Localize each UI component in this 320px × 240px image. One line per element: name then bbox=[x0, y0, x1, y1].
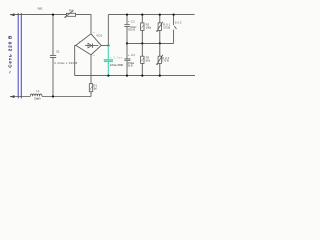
svg-text:100к: 100к bbox=[146, 26, 152, 30]
varistor RU1 bbox=[156, 15, 163, 44]
input terminal arrow bottom bbox=[10, 95, 15, 98]
capacitor C2 highlighted (teal) bbox=[104, 45, 113, 76]
node top bus junctions bbox=[126, 14, 175, 16]
svg-text:0,22мк х 630 В: 0,22мк х 630 В bbox=[54, 61, 77, 65]
wire bridge plus output bbox=[101, 45, 108, 47]
wire bottom mains bbox=[10, 96, 91, 98]
svg-text:= 0,9кв: = 0,9кв bbox=[110, 55, 123, 59]
wire AC2 drop from bridge bottom vertex bbox=[90, 55, 92, 84]
capacitor C3 electrolytic bbox=[124, 15, 129, 44]
inductor L1 bbox=[30, 94, 42, 96]
node top junction bbox=[52, 14, 54, 16]
svg-text:275 В: 275 В bbox=[162, 58, 169, 62]
svg-text:270 В: 270 В bbox=[163, 26, 170, 30]
svg-text:~: ~ bbox=[93, 54, 95, 58]
node bottom junction C1 bbox=[52, 95, 54, 97]
fuse/thermistor FU1 bbox=[64, 10, 75, 17]
svg-text:VD1: VD1 bbox=[96, 33, 102, 37]
svg-text:~: ~ bbox=[93, 30, 95, 34]
wire minus from bridge left vertex bbox=[75, 45, 76, 75]
bridge polarity marks bbox=[79, 30, 100, 58]
resistor R3 bbox=[141, 43, 144, 75]
svg-text:68к: 68к bbox=[146, 59, 151, 63]
svg-text:350 В: 350 В bbox=[128, 28, 135, 32]
capacitor C4 electrolytic bbox=[124, 43, 130, 75]
connector X1 (blue double lines) bbox=[18, 13, 21, 98]
svg-text:SA2: SA2 bbox=[175, 20, 182, 24]
wire top mains bbox=[10, 15, 91, 34]
svg-text:FU1: FU1 bbox=[69, 8, 74, 12]
switch SA2 bbox=[174, 15, 177, 44]
node plus bbox=[107, 44, 109, 46]
svg-text:220мк 450В: 220мк 450В bbox=[110, 63, 123, 67]
wire riser and top plus bus bbox=[108, 15, 194, 46]
svg-text:+ C2: + C2 bbox=[128, 19, 135, 23]
svg-text:L1: L1 bbox=[36, 89, 40, 93]
svg-text:С1: С1 bbox=[56, 50, 60, 54]
svg-text:35 В: 35 В bbox=[127, 64, 132, 68]
varistor RU2 bbox=[156, 43, 163, 75]
svg-text:10мкГн: 10мкГн bbox=[34, 97, 41, 100]
svg-text:+ C3: + C3 bbox=[128, 53, 135, 57]
wire bottom minus bus bbox=[75, 75, 195, 77]
resistor R1 bbox=[89, 84, 92, 97]
svg-text:SA1: SA1 bbox=[37, 6, 42, 10]
wire mid bus bbox=[127, 42, 174, 44]
node bottom bus junctions bbox=[107, 75, 161, 77]
bridge rectifier VD1 bbox=[76, 34, 101, 55]
svg-text:~ Сеть 220 В: ~ Сеть 220 В bbox=[7, 35, 12, 74]
resistor R2 bbox=[141, 15, 144, 44]
node mid bus junctions bbox=[126, 42, 161, 44]
input terminal arrow top bbox=[10, 13, 15, 16]
capacitor C1 bbox=[50, 15, 56, 97]
svg-text:-: - bbox=[79, 40, 80, 44]
